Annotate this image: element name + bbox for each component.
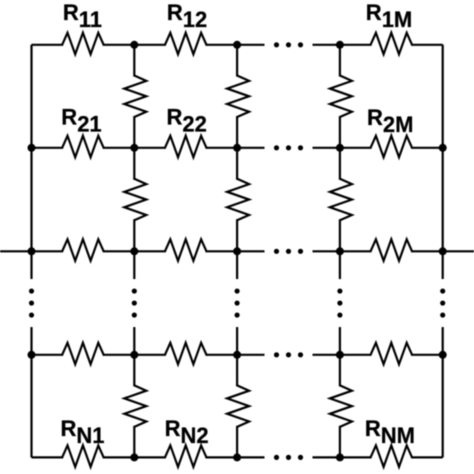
node junction row 2 col 2: [130, 144, 138, 152]
resistor R22: [165, 136, 207, 158]
wire row 2 from x=339.9 to resistor: [340, 147, 372, 149]
wire row 3 from ellipsis to node col4: [313, 250, 340, 252]
wire col 3 from y=354.8 to resistor: [236, 355, 238, 387]
wire row 5 from x=134.3 to resistor: [134, 456, 166, 458]
node junction row 1 col 4: [336, 41, 344, 49]
wire col 2 from resistor to y=147.8: [133, 116, 135, 148]
node junction row 1 col 3: [233, 41, 241, 49]
resistor vertical col 2 rows 354.8-457.4 (unlabeled): [124, 385, 146, 427]
node junction row 4 col 2: [130, 351, 138, 359]
wire row 1 from x=31.5 to resistor: [32, 44, 64, 46]
resistor RNM: [371, 445, 413, 467]
wire row 3 from x=339.9 to resistor: [340, 250, 372, 252]
wire col 3 from resistor to y=251.3: [236, 219, 238, 251]
ellipsis dots (continuation) row 2: [274, 145, 303, 150]
wire col 4 from resistor to y=147.8: [339, 116, 341, 148]
wire row 4 from x=134.3 to resistor: [134, 354, 166, 356]
node junction row 3 col 3: [233, 247, 241, 255]
node junction row 2 col 1: [28, 144, 36, 152]
wire row 3 from node col3 toward ellipsis: [237, 250, 264, 252]
ellipsis dots (continuation) row 4: [274, 352, 303, 357]
wire col 4 from y=147.8 to resistor: [339, 148, 341, 180]
node junction row 1 col 2: [130, 41, 138, 49]
node junction row 4 col 3: [233, 351, 241, 359]
wire col 2 from y=44.8 to resistor: [133, 45, 135, 77]
node junction row 4 col 4: [336, 351, 344, 359]
wire row 4 from resistor to x=442.7: [411, 354, 443, 356]
resistor row 4 cell 2 (unlabeled): [165, 343, 207, 365]
wire col 3 from resistor to y=457.4: [236, 426, 238, 458]
resistor R11: [62, 33, 104, 55]
wire row 5 from ellipsis to node col4: [313, 456, 340, 458]
node junction row 3 col 2: [130, 247, 138, 255]
wire row 3 from resistor to x=134.3: [103, 250, 135, 252]
resistor vertical col 3 rows 147.8-251.3 (unlabeled): [227, 179, 249, 221]
wire row 1 from resistor to x=442.7: [411, 44, 443, 46]
wire col 5 from row 1 down to ellipsis gap: [442, 45, 444, 279]
resistor R2M: [371, 136, 413, 158]
wire col 4 from ellipsis gap down to row 4: [339, 327, 341, 355]
wire row 5 from x=31.5 to resistor: [32, 456, 64, 458]
wire col 2 from y=147.8 to resistor: [133, 148, 135, 180]
node junction row 2 col 4: [336, 144, 344, 152]
resistor RN2: [165, 445, 207, 467]
wire row 1 from x=134.3 to resistor: [134, 44, 166, 46]
wire col 3 from ellipsis gap down to row 4: [236, 327, 238, 355]
wire row 5 from resistor to x=134.3: [103, 456, 135, 458]
wire row 5 from resistor to x=237.1: [205, 456, 237, 458]
resistor R21: [62, 136, 104, 158]
resistor RN1: [62, 445, 104, 467]
ellipsis dots (continuation) row 3: [274, 249, 303, 254]
resistor vertical col 2 rows 44.8-147.8 (unlabeled): [124, 76, 146, 118]
node junction row 2 col 5: [439, 144, 447, 152]
node junction row 2 col 3: [233, 144, 241, 152]
wire col 4 from y=354.8 to resistor: [339, 355, 341, 387]
wire col 4 from row 3 node down to ellipsis gap: [339, 251, 341, 279]
resistor row 3 cell 1 (unlabeled): [62, 239, 104, 260]
wire col 5 from ellipsis gap down to row 4: [442, 327, 444, 355]
wire col 3 from row 3 node down to ellipsis gap: [236, 251, 238, 279]
wire row 1 from x=339.9 to resistor: [340, 44, 372, 46]
wire row 1 from node col3 toward ellipsis: [237, 44, 264, 46]
wire col 1 from ellipsis gap down to row 4: [30, 327, 32, 355]
ellipsis dots (continuation) col 1: [29, 288, 34, 317]
ellipsis dots (continuation) row 5: [274, 455, 303, 460]
resistor row 3 cell 2 (unlabeled): [165, 239, 207, 260]
ellipsis dots (continuation) row 1: [274, 42, 303, 47]
resistor row 4 cell 3 (unlabeled): [371, 343, 413, 365]
wire row 3 from resistor to x=237.1: [205, 250, 237, 252]
wire col 5 from row 4 down to row 5: [442, 355, 444, 458]
node junction row 5 col 2: [130, 453, 138, 461]
wire col 2 from row 3 node down to ellipsis gap: [133, 251, 135, 279]
wire row 4 from ellipsis to node col4: [313, 354, 340, 356]
wire row 2 from ellipsis to node col4: [313, 147, 340, 149]
resistor vertical col 2 rows 147.8-251.3 (unlabeled): [124, 179, 146, 221]
wire col 4 from resistor to y=457.4: [339, 426, 341, 458]
resistor row 3 cell 3 (unlabeled): [371, 239, 413, 260]
wire col 3 from resistor to y=147.8: [236, 116, 238, 148]
wire row 5 from node col3 toward ellipsis: [237, 456, 264, 458]
wire col 1 from row 1 down to ellipsis gap: [30, 45, 32, 279]
wire col 2 from resistor to y=457.4: [133, 426, 135, 458]
wire row 3 from resistor to x=442.7: [411, 250, 443, 252]
wire row 2 from resistor to x=237.1: [205, 147, 237, 149]
wire col 2 from ellipsis gap down to row 4: [133, 327, 135, 355]
wire row 2 from resistor to x=442.7: [411, 147, 443, 149]
resistor R1M: [371, 33, 413, 55]
ellipsis dots (continuation) col 3: [235, 288, 240, 317]
resistor vertical col 3 rows 354.8-457.4 (unlabeled): [227, 385, 249, 427]
wire row 3 extension to right image edge: [443, 250, 474, 252]
wire col 4 from resistor to y=251.3: [339, 219, 341, 251]
wire col 3 from y=147.8 to resistor: [236, 148, 238, 180]
wire row 4 from node col3 toward ellipsis: [237, 354, 264, 356]
wire row 5 from x=339.9 to resistor: [340, 456, 372, 458]
wire col 2 from resistor to y=251.3: [133, 219, 135, 251]
resistor R12: [165, 33, 207, 55]
wire col 1 from row 4 down to row 5: [30, 355, 32, 458]
resistor vertical col 4 rows 147.8-251.3 (unlabeled): [330, 179, 352, 221]
wire row 2 from x=31.5 to resistor: [32, 147, 64, 149]
wire row 1 from resistor to x=237.1: [205, 44, 237, 46]
wire col 2 from y=354.8 to resistor: [133, 355, 135, 387]
resistor vertical col 4 rows 44.8-147.8 (unlabeled): [330, 76, 352, 118]
node junction row 5 col 3: [233, 453, 241, 461]
resistor vertical col 3 rows 44.8-147.8 (unlabeled): [227, 76, 249, 118]
resistor row 4 cell 1 (unlabeled): [62, 343, 104, 365]
wire row 3 from x=134.3 to resistor: [134, 250, 166, 252]
node junction row 3 col 5: [439, 247, 447, 255]
ellipsis dots (continuation) col 2: [132, 288, 137, 317]
wire row 2 from node col3 toward ellipsis: [237, 147, 264, 149]
ellipsis dots (continuation) col 4: [337, 288, 342, 317]
resistor vertical col 4 rows 354.8-457.4 (unlabeled): [330, 385, 352, 427]
node junction row 3 col 4: [336, 247, 344, 255]
wire row 3 from x=31.5 to resistor: [32, 250, 64, 252]
wire row 5 from resistor to x=442.7: [411, 456, 443, 458]
ellipsis dots (continuation) col 5: [440, 288, 445, 317]
node junction row 5 col 4: [336, 453, 344, 461]
node junction row 4 col 5: [439, 351, 447, 359]
wire col 3 from y=44.8 to resistor: [236, 45, 238, 77]
wire row 4 from resistor to x=134.3: [103, 354, 135, 356]
wire row 2 from x=134.3 to resistor: [134, 147, 166, 149]
wire row 2 from resistor to x=134.3: [103, 147, 135, 149]
node junction row 4 col 1: [28, 351, 36, 359]
wire col 4 from y=44.8 to resistor: [339, 45, 341, 77]
wire row 4 from x=31.5 to resistor: [32, 354, 64, 356]
wire row 3 extension to left image edge: [0, 250, 32, 252]
node junction row 3 col 1: [28, 247, 36, 255]
wire row 1 from ellipsis to node col4: [313, 44, 340, 46]
wire row 4 from x=339.9 to resistor: [340, 354, 372, 356]
wire row 4 from resistor to x=237.1: [205, 354, 237, 356]
wire row 1 from resistor to x=134.3: [103, 44, 135, 46]
